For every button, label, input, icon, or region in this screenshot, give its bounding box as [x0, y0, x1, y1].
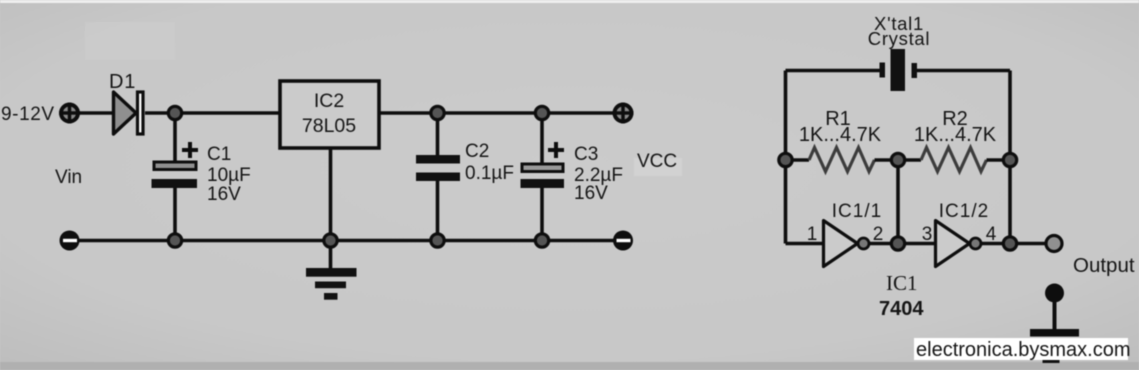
- node junction C3 bottom: [535, 234, 548, 247]
- capacitor C2: [416, 155, 460, 181]
- resistor R1 label: [799, 108, 882, 146]
- svg-text:1K...4.7K: 1K...4.7K: [914, 124, 997, 146]
- wire middle vertical branch: [896, 160, 900, 244]
- node junction feedback mid: [891, 237, 904, 250]
- terminal + input (crossed circle): [59, 103, 80, 124]
- svg-text:9-12V: 9-12V: [1, 104, 55, 125]
- node junction R2 right: [1003, 153, 1016, 166]
- svg-text:16V: 16V: [207, 184, 241, 205]
- node junction C2 top: [431, 106, 444, 119]
- wire input to diode: [80, 111, 113, 115]
- capacitor C1: [152, 162, 198, 188]
- node junction R1-R2: [891, 153, 904, 166]
- wire right vertical branch: [1008, 71, 1012, 244]
- svg-text:D1: D1: [109, 71, 136, 93]
- capacitor C3: [521, 164, 565, 188]
- wire C2 top lead: [436, 113, 440, 155]
- capacitor C3 polarity +: [548, 142, 564, 158]
- terminal - VCC return (minus circle): [613, 231, 633, 251]
- svg-text:0.1µF: 0.1µF: [465, 163, 514, 184]
- capacitor C1 polarity +: [182, 142, 198, 158]
- inverter IC1/2: [936, 221, 982, 267]
- resistor R2 label: [914, 108, 997, 146]
- wire junction down to C1: [173, 113, 177, 161]
- node junction ground: [324, 234, 337, 247]
- svg-text:Crystal: Crystal: [868, 28, 930, 49]
- node junction at C1 top: [168, 106, 181, 119]
- wire C2 bottom lead: [436, 181, 440, 241]
- wire IC2 ground pin: [329, 148, 333, 268]
- svg-text:10µF: 10µF: [207, 165, 251, 186]
- svg-text:C1: C1: [207, 144, 231, 165]
- crystal X'tal1: [880, 49, 918, 91]
- antenna key lower bar: [1043, 352, 1060, 363]
- node junction R1 left: [779, 153, 792, 166]
- svg-text:1K...4.7K: 1K...4.7K: [799, 124, 882, 146]
- terminal + VCC output (crossed circle): [613, 103, 634, 124]
- node junction output branch: [1003, 237, 1016, 250]
- wire inverter1 out to inverter2 in: [869, 242, 936, 246]
- wire IC2 output to + terminal: [379, 111, 614, 115]
- diode D1: [114, 92, 144, 134]
- wire diode to IC2: [145, 111, 280, 115]
- wire left branch to inverter 1 input: [786, 242, 824, 246]
- wire inverter2 out to output: [981, 242, 1046, 246]
- svg-text:C2: C2: [465, 141, 489, 162]
- wire C3 bottom lead: [540, 188, 544, 241]
- capacitor C1 value label: [207, 144, 251, 205]
- inverter IC1/1: [824, 221, 870, 267]
- terminal output: [1046, 236, 1062, 252]
- wire C1 to bottom rail: [173, 188, 177, 241]
- node junction C1 bottom: [168, 234, 181, 247]
- antenna key base bar: [1030, 329, 1079, 337]
- op-amp IC2 regulator 78L05: [280, 81, 379, 148]
- wire C3 top lead: [540, 113, 544, 163]
- svg-text:IC1/1: IC1/1: [832, 201, 882, 222]
- capacitor C3 value label: [574, 144, 623, 204]
- svg-text:78L05: 78L05: [302, 115, 356, 137]
- svg-text:VCC: VCC: [637, 151, 677, 172]
- node junction C2 bottom: [431, 234, 444, 247]
- antenna key stem wire: [1053, 300, 1057, 330]
- resistor R2: [898, 148, 1010, 172]
- wire bottom rail: [79, 239, 614, 243]
- svg-text:7404: 7404: [879, 298, 924, 320]
- svg-text:electronica.bysmax.com: electronica.bysmax.com: [916, 339, 1131, 361]
- ground: [306, 268, 357, 300]
- svg-text:16V: 16V: [574, 183, 608, 204]
- svg-text:Output: Output: [1073, 254, 1135, 277]
- svg-text:IC1/2: IC1/2: [939, 201, 989, 222]
- svg-text:C3: C3: [574, 144, 598, 165]
- wire left vertical branch: [784, 71, 788, 244]
- terminal - input (minus circle): [60, 231, 80, 251]
- watermark box electronica.bysmax.com: [914, 338, 1131, 361]
- node VCC label: [634, 151, 682, 176]
- svg-text:IC1: IC1: [886, 271, 918, 295]
- svg-text:IC2: IC2: [314, 90, 344, 112]
- wire crystal top loop: [786, 69, 1011, 73]
- node junction C3 top: [535, 106, 548, 119]
- resistor R1: [786, 148, 899, 172]
- svg-text:1: 1: [807, 224, 818, 245]
- svg-text:Vin: Vin: [55, 167, 82, 188]
- capacitor C2 value label: [465, 141, 514, 184]
- crystal X'tal1 label: [868, 13, 930, 49]
- antenna key symbol ball: [1045, 284, 1064, 303]
- svg-text:3: 3: [922, 224, 933, 245]
